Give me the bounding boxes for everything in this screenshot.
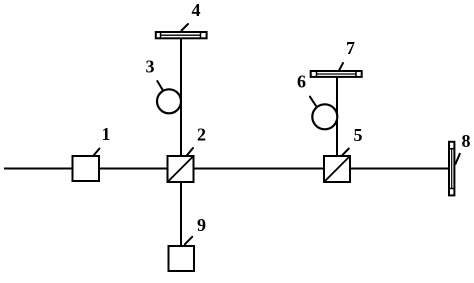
svg-text:2: 2 [197,125,206,145]
svg-text:6: 6 [297,72,306,92]
svg-text:9: 9 [197,215,206,235]
svg-text:8: 8 [462,131,471,151]
svg-text:5: 5 [354,125,363,145]
svg-text:7: 7 [346,38,355,58]
svg-text:1: 1 [102,124,111,144]
svg-text:3: 3 [146,57,155,77]
svg-text:4: 4 [192,0,201,20]
